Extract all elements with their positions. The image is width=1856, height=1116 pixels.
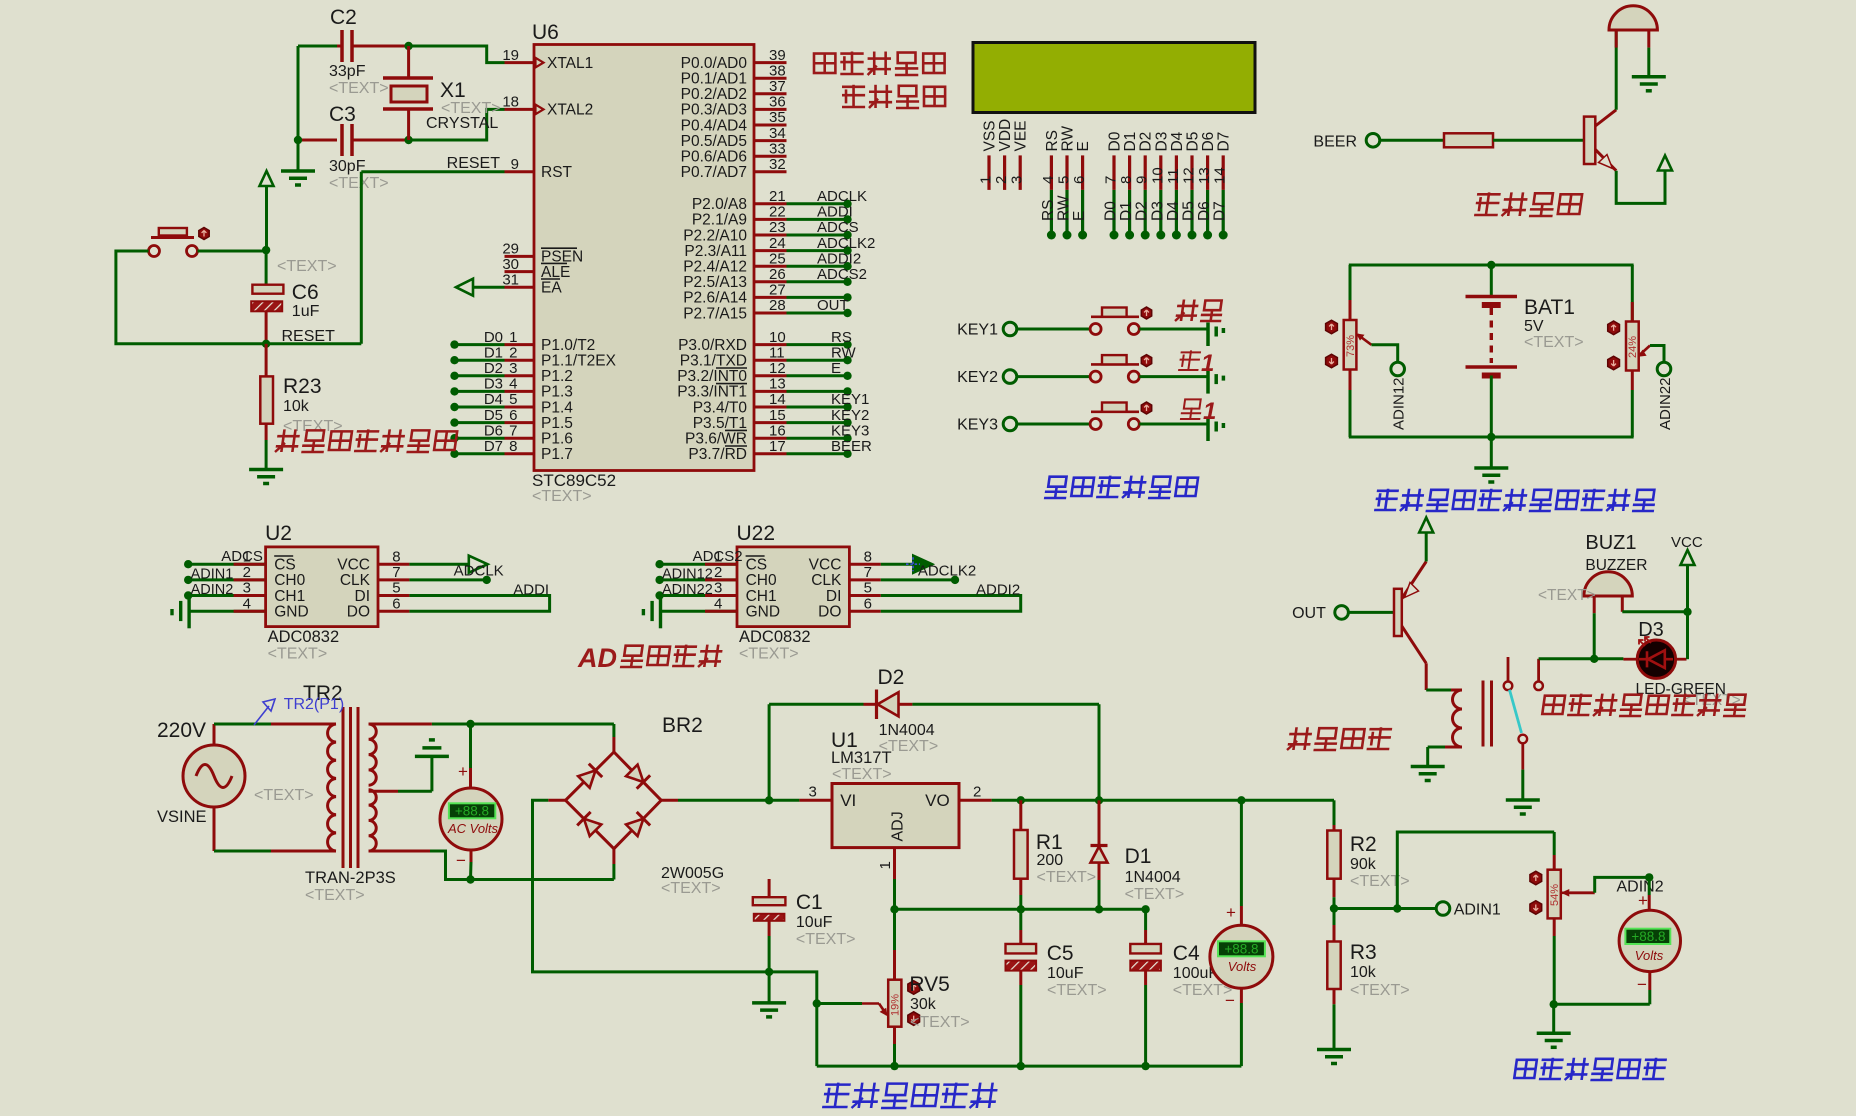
svg-text:TR2(P1): TR2(P1) xyxy=(284,696,344,713)
svg-text:22: 22 xyxy=(769,204,786,221)
svg-text:1: 1 xyxy=(877,861,894,869)
svg-text:D2: D2 xyxy=(878,666,905,689)
diode BR2 bottom-right xyxy=(626,819,643,836)
ground U22 xyxy=(659,596,662,629)
svg-text:VO: VO xyxy=(925,791,950,810)
svg-text:VSINE: VSINE xyxy=(157,808,207,826)
svg-text:23: 23 xyxy=(769,219,786,236)
svg-text:<TEXT>: <TEXT> xyxy=(1524,334,1584,351)
svg-text:+: + xyxy=(1226,903,1236,922)
U6 pin 6 (P1.5) with net D5 xyxy=(505,421,535,424)
svg-text:90k: 90k xyxy=(1350,856,1377,873)
diode BR2 top-right xyxy=(626,765,643,782)
label simulated current output (chinese blue) xyxy=(1514,1058,1667,1080)
LCD pin 13 (D6) xyxy=(1206,155,1209,190)
svg-text:14: 14 xyxy=(769,391,786,408)
svg-text:9: 9 xyxy=(511,156,519,173)
svg-text:P0.0/AD0: P0.0/AD0 xyxy=(681,55,748,72)
label charger parameters (chinese) xyxy=(814,52,945,75)
wire U2 CH1 net ADIN2 xyxy=(188,594,265,597)
wire resistor to Q base xyxy=(1493,139,1584,142)
LCD pin 2 (VDD) xyxy=(1003,155,1006,190)
wire TR2 center tap to ground xyxy=(369,790,398,793)
wire emitter to VCC arrow xyxy=(1425,533,1428,562)
svg-text:D3: D3 xyxy=(1638,619,1664,641)
wire ADJ rail xyxy=(895,908,1146,911)
U6 pin 19 (XTAL1) xyxy=(505,61,535,64)
U6 pin 26 (P2.5/A13) net ADCS2 xyxy=(754,280,787,283)
U6 pin 25 (P2.4/A12) net ADDI2 xyxy=(754,265,787,268)
svg-text:RS: RS xyxy=(1040,199,1057,221)
U6 pin 15 (P3.5/T1) net KEY2 xyxy=(754,421,787,424)
ground main rail xyxy=(768,972,771,1003)
U6 pin 23 (P2.2/A10) net ADCS xyxy=(754,234,787,237)
U6 pin 36 (P0.3/AD3) xyxy=(754,108,787,111)
svg-text:RW: RW xyxy=(831,344,857,361)
node ground rail junction xyxy=(765,968,773,976)
label set charging parameters (chinese blue) xyxy=(1044,476,1198,498)
svg-text:1: 1 xyxy=(1203,398,1216,425)
svg-text:P1.6: P1.6 xyxy=(541,431,573,448)
wire to ADIN1 xyxy=(1334,907,1437,910)
wire ground rail to RV5 xyxy=(769,972,817,1004)
wire BR2 bottom vertex xyxy=(612,849,615,864)
power arrow VCC for reset xyxy=(260,171,274,186)
svg-text:+88.8: +88.8 xyxy=(455,803,489,818)
wire coil to ground xyxy=(1445,746,1462,749)
svg-text:U22: U22 xyxy=(737,522,776,545)
ground KEY3 xyxy=(1206,418,1210,442)
svg-text:D1: D1 xyxy=(1122,132,1139,152)
svg-text:<TEXT>: <TEXT> xyxy=(910,1014,970,1031)
svg-text:R1: R1 xyxy=(1036,831,1063,854)
svg-text:D2: D2 xyxy=(1134,201,1151,221)
svg-text:<TEXT>: <TEXT> xyxy=(329,175,389,192)
wire U22 DI-DO loop net ADDI2 xyxy=(881,596,1021,612)
terminal ADIN12 xyxy=(1391,362,1405,376)
svg-text:ADCLK2: ADCLK2 xyxy=(817,235,875,252)
svg-text:13: 13 xyxy=(1196,167,1213,184)
wire BEER to resistor xyxy=(1380,139,1444,142)
U6 pin 14 (P3.4/T0) net KEY1 xyxy=(754,406,787,409)
svg-text:P3.4/T0: P3.4/T0 xyxy=(693,399,748,416)
svg-text:+: + xyxy=(458,762,468,781)
svg-text:ADCS: ADCS xyxy=(221,548,263,565)
U6 pin 33 (P0.6/AD6) xyxy=(754,155,787,158)
svg-text:8: 8 xyxy=(1118,176,1135,184)
svg-text:16: 16 xyxy=(769,422,786,439)
wire U22 CS net ADCS2 xyxy=(660,563,737,566)
svg-text:C3: C3 xyxy=(329,103,356,126)
svg-text:ADCS: ADCS xyxy=(817,219,859,236)
svg-text:3: 3 xyxy=(1009,176,1026,184)
relay RL1 switch xyxy=(1507,657,1510,681)
svg-text:P2.1/A9: P2.1/A9 xyxy=(692,212,747,229)
svg-text:OUT: OUT xyxy=(1292,605,1326,622)
svg-text:30k: 30k xyxy=(910,996,937,1013)
svg-text:200: 200 xyxy=(1037,852,1064,869)
svg-text:D7: D7 xyxy=(484,438,503,455)
svg-text:E: E xyxy=(1075,141,1092,151)
svg-text:19: 19 xyxy=(502,47,519,64)
wire BR2 right vertex to U1 VI xyxy=(661,799,678,802)
svg-text:<TEXT>: <TEXT> xyxy=(1350,873,1410,890)
transistor Q2 PNP xyxy=(1394,589,1402,636)
IC U2 ADC0832 body xyxy=(266,547,378,627)
svg-text:D1: D1 xyxy=(1118,201,1135,221)
ground speaker xyxy=(1647,48,1650,77)
svg-text:DO: DO xyxy=(818,604,841,621)
svg-text:Volts: Volts xyxy=(1635,948,1664,963)
svg-text:7: 7 xyxy=(864,564,872,581)
svg-text:P3.7/RD: P3.7/RD xyxy=(688,446,747,463)
svg-text:10k: 10k xyxy=(1350,964,1377,981)
wire KEY3 to ground xyxy=(1139,423,1208,426)
wire XTAL1 xyxy=(409,46,505,63)
svg-text:P1.1/T2EX: P1.1/T2EX xyxy=(541,353,617,370)
svg-text:P0.6/AD6: P0.6/AD6 xyxy=(681,149,747,166)
potentiometer RV1 73% xyxy=(1349,265,1352,320)
svg-text:18: 18 xyxy=(502,94,519,111)
capacitor C4 100uF xyxy=(1144,909,1147,930)
LCD pin 4 (RS) xyxy=(1050,155,1053,190)
svg-text:RV5: RV5 xyxy=(909,973,949,996)
svg-text:+88.8: +88.8 xyxy=(1224,941,1258,956)
push button reset xyxy=(159,228,187,236)
capacitor C3 30pF xyxy=(298,139,337,142)
wiper RV2 to ADIN22 xyxy=(1640,346,1651,356)
resistor base (BEER) xyxy=(1444,133,1493,147)
wire OUT to Q2 base xyxy=(1348,611,1394,614)
svg-text:E: E xyxy=(831,360,841,377)
wire TR2 secondary bottom xyxy=(369,850,430,853)
svg-text:C2: C2 xyxy=(330,6,357,29)
transformer TR2 TRAN-2P3S xyxy=(328,724,336,851)
svg-text:P3.3/INT1: P3.3/INT1 xyxy=(677,384,747,401)
svg-text:P1.2: P1.2 xyxy=(541,368,573,385)
svg-text:21: 21 xyxy=(769,188,786,205)
svg-text:RS: RS xyxy=(1044,130,1061,152)
svg-text:VI: VI xyxy=(840,791,856,810)
svg-text:CH1: CH1 xyxy=(746,588,777,605)
svg-text:C4: C4 xyxy=(1173,942,1200,965)
terminal KEY1 xyxy=(1003,322,1017,336)
svg-text:D3: D3 xyxy=(484,376,503,393)
ground current sim xyxy=(1552,1004,1555,1033)
capacitor C5 10uF xyxy=(1019,909,1022,930)
wire C2-C3 left leg xyxy=(297,46,300,140)
svg-text:BEER: BEER xyxy=(831,438,872,455)
ground relay coil xyxy=(1411,765,1445,769)
U6 pin 37 (P0.2/AD2) xyxy=(754,92,787,95)
svg-text:ADIN12: ADIN12 xyxy=(662,567,713,583)
svg-text:KEY1: KEY1 xyxy=(831,391,869,408)
svg-text:P1.5: P1.5 xyxy=(541,415,573,432)
svg-text:15: 15 xyxy=(769,407,786,424)
svg-text:D5: D5 xyxy=(484,407,503,424)
wire button left leg xyxy=(116,251,361,344)
U6 pin 35 (P0.4/AD4) xyxy=(754,124,787,127)
wiper RV6 to ADIN2 xyxy=(1562,891,1570,894)
svg-text:VDD: VDD xyxy=(997,119,1014,152)
svg-text:ADC0832: ADC0832 xyxy=(739,628,811,646)
LED D3 LED-GREEN xyxy=(1594,657,1623,660)
svg-text:17: 17 xyxy=(769,438,786,455)
clock input arrow XTAL2 xyxy=(536,105,544,115)
wire collector to relay coil xyxy=(1425,663,1428,690)
svg-text:1uF: 1uF xyxy=(292,303,320,320)
svg-text:P0.1/AD1: P0.1/AD1 xyxy=(681,71,747,88)
label charging switch (chinese red) xyxy=(1287,727,1392,750)
wire LED to VCC rail xyxy=(1676,658,1687,661)
U6 pin 29 (PSEN) xyxy=(505,255,535,258)
LCD pin 8 (D1) xyxy=(1128,155,1131,190)
power arrow U2 VCC xyxy=(409,563,468,566)
svg-text:<TEXT>: <TEXT> xyxy=(277,258,337,275)
ground R3 xyxy=(1317,1048,1351,1052)
svg-text:U2: U2 xyxy=(265,522,292,545)
svg-text:4: 4 xyxy=(1040,176,1057,184)
svg-text:54%: 54% xyxy=(1549,884,1561,906)
wire U2 GND xyxy=(189,610,266,613)
diode BR2 top-left xyxy=(578,770,595,787)
svg-text:D6: D6 xyxy=(484,422,503,439)
svg-text:C1: C1 xyxy=(796,891,823,914)
potentiometer RV5 30k xyxy=(893,909,896,950)
wire NO contact to LED rail xyxy=(1534,682,1543,691)
svg-text:RW: RW xyxy=(1056,195,1073,221)
ground battery xyxy=(1490,437,1493,468)
svg-text:5V: 5V xyxy=(1524,318,1544,335)
LCD pin 12 (D5) xyxy=(1190,155,1193,190)
svg-text:D2: D2 xyxy=(484,360,503,377)
U6 pin 34 (P0.5/AD5) xyxy=(754,139,787,142)
U6 pin 16 (P3.6/WR) net KEY3 xyxy=(754,437,787,440)
capacitor C2 33pF xyxy=(298,45,337,48)
svg-text:D0: D0 xyxy=(1107,131,1124,151)
U6 pin 21 (P2.0/A8) net ADCLK xyxy=(754,202,787,205)
svg-text:P1.3: P1.3 xyxy=(541,384,573,401)
transistor Q1 NPN xyxy=(1584,117,1595,164)
svg-text:CLK: CLK xyxy=(811,572,842,589)
U6 pin 12 (P3.2/INT0) net E xyxy=(754,374,787,377)
svg-text:KEY3: KEY3 xyxy=(831,422,869,439)
label battery voltage current simulation (chinese blue) xyxy=(1374,489,1657,511)
svg-text:P1.7: P1.7 xyxy=(541,446,573,463)
svg-text:<TEXT>: <TEXT> xyxy=(268,646,328,663)
svg-text:P3.5/T1: P3.5/T1 xyxy=(693,415,747,432)
terminal ADIN22 xyxy=(1657,362,1671,376)
LCD pin 10 (D3) xyxy=(1159,155,1162,190)
U6 pin 30 (ALE) xyxy=(505,270,535,273)
wire U22 CLK net ADCLK2 xyxy=(881,578,955,581)
wire U22 CH0 net ADIN12 xyxy=(660,578,737,581)
relay RL1 coil xyxy=(1453,690,1462,747)
svg-text:BUZZER: BUZZER xyxy=(1585,557,1647,574)
svg-text:VCC: VCC xyxy=(337,557,370,574)
svg-text:P1.0/T2: P1.0/T2 xyxy=(541,337,595,354)
wire battery top rail xyxy=(1349,264,1634,267)
svg-text:RESET: RESET xyxy=(282,328,336,345)
EA terminal arrow xyxy=(456,279,473,296)
svg-text:19%: 19% xyxy=(890,994,902,1016)
U6 pin 2 (P1.1/T2EX) with net D1 xyxy=(505,359,535,362)
svg-text:DI: DI xyxy=(826,588,842,605)
svg-text:33pF: 33pF xyxy=(329,63,366,80)
svg-text:1N4004: 1N4004 xyxy=(879,722,935,739)
terminal ADIN1 xyxy=(1436,902,1450,916)
node R2-R3 xyxy=(1330,904,1338,912)
svg-text:P0.7/AD7: P0.7/AD7 xyxy=(681,164,747,181)
U6 pin 4 (P1.3) with net D3 xyxy=(505,390,535,393)
U6 pin 3 (P1.2) with net D2 xyxy=(505,374,535,377)
wire VSINE bottom to TR2 xyxy=(213,807,216,851)
wire U2 CS net ADCS xyxy=(188,563,265,566)
svg-text:D4: D4 xyxy=(1169,131,1186,151)
terminal OUT xyxy=(1335,606,1349,620)
U6 pin 11 (P3.1/TXD) net RW xyxy=(754,359,787,362)
svg-text:D1: D1 xyxy=(1125,845,1152,868)
svg-text:220V: 220V xyxy=(157,719,206,742)
svg-text:D4: D4 xyxy=(1165,201,1182,221)
wire D2 to VO rail xyxy=(1098,704,1101,800)
svg-text:9: 9 xyxy=(1134,176,1151,184)
svg-text:2: 2 xyxy=(973,783,981,800)
power arrow up (emitter) xyxy=(1658,156,1672,171)
svg-text:KEY1: KEY1 xyxy=(957,322,998,339)
meter Volts (current sim) xyxy=(1648,877,1651,895)
LCD pin 14 (D7) xyxy=(1222,155,1225,190)
capacitor C1 10uF xyxy=(768,879,771,898)
ground KEY2 xyxy=(1206,370,1210,394)
svg-text:32: 32 xyxy=(769,156,786,173)
svg-text:12: 12 xyxy=(1181,167,1198,184)
svg-text:D6: D6 xyxy=(1200,132,1217,152)
ground KEY1 xyxy=(1206,323,1210,347)
wire XTAL2 xyxy=(409,109,505,140)
label adjust voltage output (chinese blue) xyxy=(822,1083,999,1108)
svg-text:73%: 73% xyxy=(1345,335,1357,357)
svg-text:<TEXT>: <TEXT> xyxy=(1037,869,1097,886)
svg-text:P0.2/AD2: P0.2/AD2 xyxy=(681,86,747,103)
svg-text:CH0: CH0 xyxy=(746,572,777,589)
diode D1 1N4004 xyxy=(1098,800,1101,844)
svg-text:P2.6/A14: P2.6/A14 xyxy=(683,290,747,307)
svg-text:R3: R3 xyxy=(1350,941,1377,964)
svg-text:R2: R2 xyxy=(1350,833,1377,856)
svg-text:−: − xyxy=(456,851,466,870)
potentiometer RV2 24% xyxy=(1631,265,1634,322)
wire KEY2 to ground xyxy=(1139,375,1208,378)
label charge battery (chinese) xyxy=(842,85,945,108)
svg-text:6: 6 xyxy=(1071,176,1088,184)
svg-text:D3: D3 xyxy=(1153,132,1170,152)
svg-text:ADDI: ADDI xyxy=(817,204,853,221)
ground center tap (inverted) xyxy=(415,755,449,759)
svg-text:ADDI2: ADDI2 xyxy=(817,250,861,267)
svg-text:<TEXT>: <TEXT> xyxy=(661,880,721,897)
svg-text:D7: D7 xyxy=(1212,201,1229,221)
wire U1 ADJ pin xyxy=(893,848,896,879)
svg-text:8: 8 xyxy=(392,548,400,565)
svg-text:7: 7 xyxy=(1103,176,1120,184)
svg-text:OUT: OUT xyxy=(817,297,849,314)
push button KEY3 switch xyxy=(1090,419,1101,430)
svg-text:34: 34 xyxy=(769,125,786,142)
wire bottom rail xyxy=(815,1004,818,1067)
svg-text:D0: D0 xyxy=(484,329,503,346)
svg-text:X1: X1 xyxy=(440,79,466,102)
svg-text:35: 35 xyxy=(769,109,786,126)
svg-text:11: 11 xyxy=(1165,168,1182,184)
U6 pin 13 (P3.3/INT1) net n/c xyxy=(754,390,787,393)
capacitor C6 1uF xyxy=(265,251,268,285)
U6 pin 32 (P0.7/AD7) xyxy=(754,170,787,173)
LCD pin 3 (VEE) xyxy=(1019,155,1022,190)
svg-text:KEY2: KEY2 xyxy=(957,369,998,386)
push button KEY2 switch xyxy=(1090,371,1101,382)
wire KEY1 to ground xyxy=(1139,328,1208,331)
svg-text:31: 31 xyxy=(502,271,519,288)
svg-text:<TEXT>: <TEXT> xyxy=(254,787,314,804)
svg-text:D7: D7 xyxy=(1216,132,1233,152)
svg-text:D0: D0 xyxy=(1103,201,1120,221)
wire U22 CH1 net ADIN22 xyxy=(660,594,737,597)
resistor R2 90k xyxy=(1333,800,1336,825)
svg-text:BR2: BR2 xyxy=(662,714,703,737)
svg-text:8: 8 xyxy=(509,438,517,455)
U6 pin 1 (P1.0/T2) with net D0 xyxy=(505,343,535,346)
svg-text:4: 4 xyxy=(509,376,517,393)
svg-text:CH0: CH0 xyxy=(274,572,305,589)
wire TR2 secondary top xyxy=(369,723,432,726)
wiper RV1 to ADIN12 xyxy=(1358,335,1372,345)
svg-text:ADCLK2: ADCLK2 xyxy=(918,563,976,580)
LCD pin 7 (D0) xyxy=(1112,155,1115,190)
wire battery bottom rail xyxy=(1349,436,1634,439)
svg-text:RESET: RESET xyxy=(447,155,501,172)
wire button right leg xyxy=(198,250,267,253)
svg-text:VSS: VSS xyxy=(982,120,999,151)
svg-text:D2: D2 xyxy=(1138,132,1155,152)
svg-text:30: 30 xyxy=(502,256,519,273)
LCD pin 5 (RW) xyxy=(1065,155,1068,190)
svg-text:<TEXT>: <TEXT> xyxy=(796,931,856,948)
svg-text:C5: C5 xyxy=(1047,942,1074,965)
battery BAT1 5V xyxy=(1490,265,1493,297)
svg-text:5: 5 xyxy=(864,580,872,597)
U6 pin 28 (P2.7/A15) net OUT xyxy=(754,312,787,315)
svg-text:37: 37 xyxy=(769,78,786,95)
svg-text:VEE: VEE xyxy=(1013,120,1030,151)
LCD pin 11 (D4) xyxy=(1175,155,1178,190)
svg-text:ADDI: ADDI xyxy=(513,581,549,598)
label key prompt (chinese) xyxy=(1474,192,1582,216)
IC U22 ADC0832 body xyxy=(737,547,849,627)
svg-text:VCC: VCC xyxy=(809,557,842,574)
svg-text:10: 10 xyxy=(1149,167,1166,184)
speaker LS1 xyxy=(1609,6,1657,30)
svg-text:KEY3: KEY3 xyxy=(957,417,998,434)
svg-text:RS: RS xyxy=(831,329,852,346)
U6 pin 22 (P2.1/A9) net ADDI xyxy=(754,218,787,221)
svg-text:14: 14 xyxy=(1212,167,1229,184)
svg-text:3: 3 xyxy=(809,783,817,800)
svg-text:RST: RST xyxy=(541,164,573,181)
svg-text:<TEXT>: <TEXT> xyxy=(1047,982,1107,999)
svg-text:5: 5 xyxy=(392,580,400,597)
U6 pin 24 (P2.3/A11) net ADCLK2 xyxy=(754,249,787,252)
